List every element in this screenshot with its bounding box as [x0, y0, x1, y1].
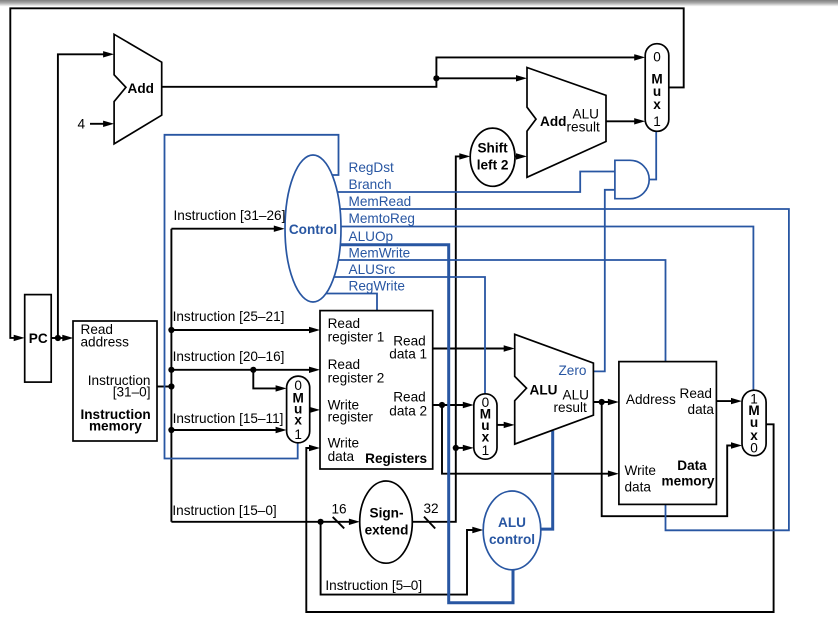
node: instruction bus [25-21] [168, 327, 174, 333]
svg-text:data: data [625, 480, 652, 495]
svg-text:Address: Address [626, 392, 676, 407]
arrowhead into instruction memory read address [62, 335, 73, 341]
node: ALU result branch [599, 399, 605, 405]
arrowhead into Add-result lower input [516, 153, 527, 159]
wire: instruction [15-0] to sign extend [171, 521, 352, 523]
svg-text:MemRead: MemRead [349, 194, 412, 209]
svg-text:ALU: ALU [498, 515, 526, 530]
node: instruction bus [20-16] [168, 367, 174, 373]
wire: AND gate output to PCSrc mux select [649, 131, 656, 179]
svg-text:Zero: Zero [559, 363, 587, 378]
svg-text:Instruction [15–11]: Instruction [15–11] [173, 411, 284, 426]
instruction memory box [73, 321, 157, 441]
adder Add (PC+4) [114, 34, 162, 144]
arrowhead into ALU top input [504, 345, 515, 351]
svg-text:data: data [688, 402, 715, 417]
arrowhead into shift left 2 [459, 153, 470, 159]
arrowhead into ALU bottom input [504, 422, 515, 428]
svg-text:RegDst: RegDst [349, 160, 395, 175]
svg-text:result: result [554, 400, 587, 415]
wire: Read data 1 to ALU [433, 348, 508, 350]
wire: Branch control to AND gate [312, 172, 615, 193]
svg-text:PC: PC [29, 331, 48, 346]
svg-text:1: 1 [294, 427, 302, 442]
node: PC+4 junction [433, 75, 439, 81]
svg-text:Write: Write [625, 463, 656, 478]
svg-text:Read: Read [680, 386, 713, 401]
svg-text:Add: Add [540, 114, 566, 129]
wire: sign-extend branch into ALUSrc mux input 1 [456, 447, 467, 449]
wire: PCSrc mux output feedback to PC (top/left loop) [10, 8, 683, 338]
data memory box [619, 362, 717, 505]
wire: constant 4 into Add [90, 123, 106, 125]
svg-text:x: x [653, 97, 661, 112]
wire: RegDst control to RegDst mux select [165, 135, 339, 459]
arrowhead into branch mux input 1 [634, 118, 645, 124]
arrowhead into Data memory address [608, 399, 619, 405]
svg-text:memory: memory [89, 419, 142, 434]
svg-text:extend: extend [365, 523, 409, 538]
wire: ALU control output to ALU [541, 431, 553, 529]
svg-text:Sign-: Sign- [370, 506, 404, 521]
wire: Read data 2 branch to Data memory Write data [442, 405, 612, 474]
node: read data 2 branch [439, 402, 445, 408]
wire: instruction [15-11] to RegDst mux input 1 [171, 429, 279, 431]
wire: MemtoReg mux output back to Registers Write data (bottom loop) [306, 424, 773, 612]
svg-text:32: 32 [423, 501, 438, 516]
svg-text:data 1: data 1 [389, 347, 427, 362]
ellipse ALU control unit [483, 491, 541, 570]
svg-text:Read: Read [393, 390, 426, 405]
wire: ALUOp control to ALU control unit [312, 245, 513, 603]
svg-text:Instruction [15–0]: Instruction [15–0] [172, 503, 276, 518]
node: PC output junction [55, 335, 61, 341]
arrowhead into RegDst mux input 0 [276, 385, 287, 391]
wire: RegDst mux output to Write register [310, 409, 313, 411]
arrowhead into sign extend [349, 519, 360, 525]
mux RegDst (write register) [287, 376, 310, 443]
wire: RegWrite control to Registers [312, 294, 377, 311]
wire: MemWrite control to Data memory write port [312, 260, 666, 362]
svg-text:ALU: ALU [530, 383, 558, 398]
svg-text:Instruction [31–26]: Instruction [31–26] [174, 208, 286, 223]
arrowhead into branch mux input 0 [634, 54, 645, 60]
arrowhead into Data memory write data [608, 471, 619, 477]
wire: instruction [25-21] to Read register 1 [171, 329, 312, 331]
svg-text:Instruction [20–16]: Instruction [20–16] [173, 349, 285, 364]
svg-text:Instruction [25–21]: Instruction [25–21] [173, 309, 285, 324]
wire: ALUSrc mux output to ALU [497, 424, 508, 426]
svg-text:data: data [328, 449, 355, 464]
arrowhead into Read register 2 [309, 367, 320, 373]
adder Add (branch target, ALU result) [527, 68, 606, 178]
svg-text:Registers: Registers [365, 451, 427, 466]
node: sign extend output branch [453, 445, 459, 451]
wire: instruction [20-16] to Read register 2 [171, 369, 312, 371]
arrowhead into MemtoReg mux input 0 [731, 442, 742, 448]
slash 32-bit width mark [424, 517, 435, 529]
svg-text:Add: Add [128, 81, 154, 96]
arrowhead into ALU control [472, 527, 483, 533]
svg-text:1: 1 [653, 114, 661, 129]
node: instruction bus [15-11] [168, 427, 174, 433]
svg-text:1: 1 [482, 443, 490, 458]
svg-text:MemWrite: MemWrite [349, 246, 411, 261]
svg-text:address: address [81, 335, 130, 350]
PC register box [25, 295, 52, 383]
svg-text:0: 0 [653, 50, 661, 65]
svg-text:Instruction [5–0]: Instruction [5–0] [325, 578, 422, 593]
ellipse shift left 2 [470, 128, 515, 186]
svg-text:register: register [328, 410, 374, 425]
svg-text:memory: memory [662, 474, 715, 489]
wire: instruction [20-16] branch to RegDst mux input 0 [253, 370, 279, 389]
svg-text:16: 16 [331, 502, 346, 517]
svg-text:control: control [489, 532, 535, 547]
arrowhead into Control [274, 226, 285, 232]
svg-text:register 1: register 1 [328, 330, 385, 345]
svg-text:register 2: register 2 [328, 371, 385, 386]
mux MemtoReg [742, 390, 766, 456]
svg-text:x: x [294, 413, 302, 428]
svg-text:MemtoReg: MemtoReg [349, 211, 415, 226]
node: instruction bus output [168, 383, 174, 389]
wire: instruction [5-0] to ALU control [321, 522, 476, 595]
node: instruction [20-16] branch [250, 367, 256, 373]
top gray gradient bar [0, 0, 838, 7]
wire: MemRead control to Data memory read port [312, 209, 789, 530]
wire: PC output to instruction memory read address [51, 337, 65, 339]
AND gate (branch and zero) [615, 160, 649, 198]
svg-text:4: 4 [78, 117, 86, 132]
wire: Add ALU result to branch mux input 1 [606, 120, 637, 122]
arrowhead into Add-result top input [516, 75, 527, 81]
svg-text:Control: Control [289, 222, 337, 237]
svg-text:ALUOp: ALUOp [349, 229, 394, 244]
arrowhead into Registers write data [309, 445, 320, 451]
wire: Data memory Read data to MemtoReg mux input 1 [716, 400, 734, 402]
svg-text:Data: Data [677, 458, 707, 473]
wire: ALU result to Data memory Address and MemtoReg mux input 0 [593, 401, 611, 403]
arrowhead into Add bottom input (4) [103, 121, 114, 127]
wire: instruction bus vertical [170, 229, 172, 522]
slash 16-bit width mark [333, 517, 345, 529]
wire: MemtoReg control to MemtoReg mux select [312, 227, 753, 391]
arrowhead into MemtoReg mux input 1 [731, 398, 742, 404]
wire: Read data 2 to ALUSrc mux input 0 [433, 404, 467, 406]
ellipse Control unit [285, 155, 341, 302]
mux PCSrc (top right) [645, 44, 669, 132]
wire: sign-extend output to ALUSrc mux input 1 and shift-left-2 [412, 156, 462, 521]
arrowhead into Add top input [103, 51, 114, 57]
svg-text:left 2: left 2 [477, 158, 509, 173]
arrowhead into PC [14, 335, 25, 341]
svg-text:0: 0 [750, 441, 758, 456]
wire: shift-left-2 output into Add-result [515, 155, 520, 157]
svg-text:result: result [567, 120, 600, 135]
arrowhead into RegDst mux input 1 [276, 427, 287, 433]
wire: Add (PC+4) output to branch mux input 0 and Add-result top input [162, 57, 637, 86]
wire: instruction memory output to bus [157, 386, 171, 388]
svg-text:RegWrite: RegWrite [349, 279, 405, 294]
ALU main [515, 334, 594, 444]
wire: instruction [31-26] into Control [171, 228, 280, 230]
wire: ALU Zero output to AND gate [593, 190, 615, 372]
arrowhead into Write register [309, 407, 320, 413]
registers box [320, 311, 433, 469]
wire: ALUSrc control to ALUSrc mux select [312, 277, 485, 394]
node: instruction [15-0] branch [318, 519, 324, 525]
arrowhead into Read register 1 [309, 327, 320, 333]
svg-text:Branch: Branch [349, 177, 392, 192]
ellipse sign extend [360, 481, 413, 563]
arrowhead into ALUSrc mux input 1 [463, 445, 474, 451]
svg-text:Shift: Shift [477, 141, 508, 156]
wire: PC value up to Add (PC+4) [58, 54, 106, 338]
svg-text:ALUSrc: ALUSrc [349, 262, 396, 277]
svg-text:data 2: data 2 [389, 404, 427, 419]
mux ALUSrc [474, 394, 497, 459]
svg-text:[31–0]: [31–0] [113, 385, 151, 400]
arrowhead into ALUSrc mux input 0 [463, 402, 474, 408]
